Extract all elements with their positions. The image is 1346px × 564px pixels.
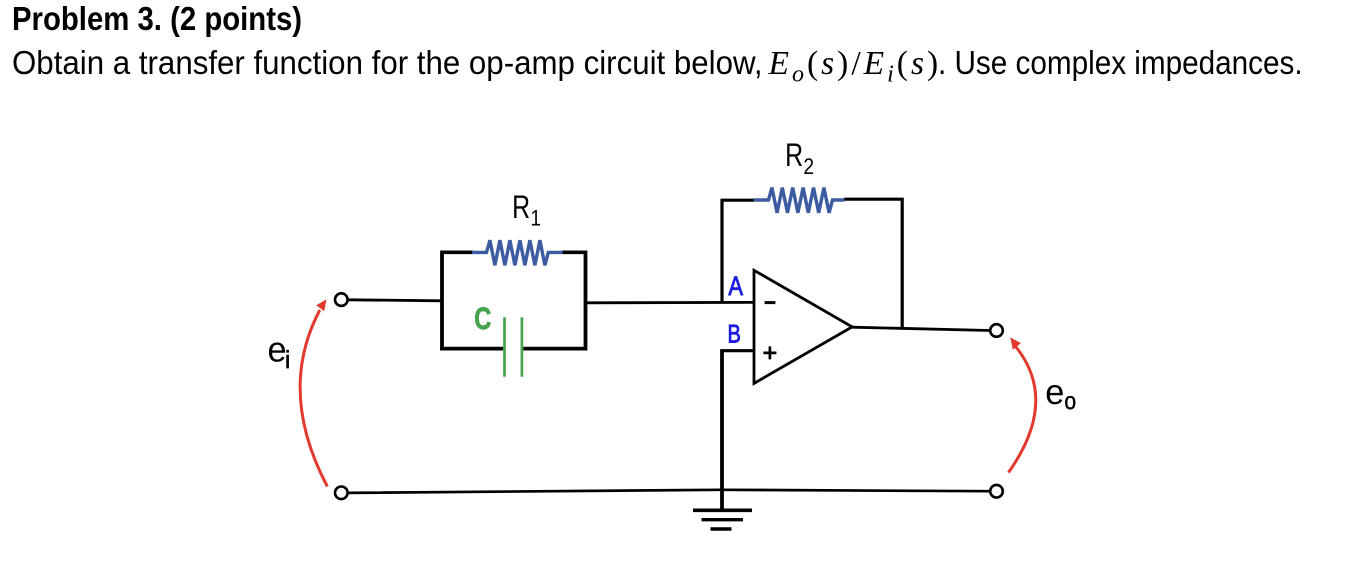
ground <box>693 510 752 529</box>
node A label <box>728 271 743 301</box>
wire: top-left terminal to R1C box <box>348 300 442 301</box>
label C <box>474 301 491 336</box>
node B label <box>728 320 741 348</box>
svg-text:R: R <box>785 136 803 173</box>
svg-text:C: C <box>474 301 491 336</box>
output arrow e_o arc <box>1009 337 1036 472</box>
terminal bottom-left <box>335 487 348 500</box>
svg-text:i: i <box>285 347 290 374</box>
svg-text:e: e <box>1045 372 1064 412</box>
wire: node B horizontal into op-amp + input <box>722 349 754 352</box>
op-amp U1 triangle <box>754 270 852 383</box>
problem statement math E_o(s)/E_i(s) <box>769 47 942 87</box>
R1C box top edge black segments <box>441 251 587 255</box>
svg-text:A: A <box>728 271 743 301</box>
label R2 <box>785 136 814 179</box>
problem statement trailing text <box>938 47 1303 81</box>
wire: R2 right lead horizontal and down to output <box>844 199 902 329</box>
problem title <box>12 3 302 37</box>
terminal bottom-right <box>990 485 1003 498</box>
svg-text:B: B <box>728 320 741 348</box>
label e_o <box>1045 372 1076 415</box>
terminal output top-right <box>990 324 1003 337</box>
label R1 <box>512 188 541 231</box>
R1C parallel box right side <box>584 251 588 351</box>
svg-text:o: o <box>1064 388 1076 415</box>
svg-text:R: R <box>512 188 530 225</box>
svg-text:1: 1 <box>530 206 541 231</box>
svg-text:e: e <box>268 330 287 370</box>
resistor R2 <box>754 188 845 213</box>
terminal top-left <box>335 293 348 306</box>
op-amp minus sign <box>765 301 776 304</box>
R1C parallel box left side <box>440 251 444 351</box>
wire: node B vertical down to ground <box>720 349 724 509</box>
R1C box bottom edge black segments <box>440 347 587 351</box>
wire: feedback vertical from node A up to R2 <box>720 200 723 303</box>
label e_i <box>268 330 291 375</box>
wire: bottom return wire <box>348 490 991 493</box>
op-amp plus sign <box>763 346 776 359</box>
wire: op-amp output to right terminal <box>852 327 990 330</box>
resistor R1 <box>472 240 563 265</box>
svg-text:2: 2 <box>803 154 814 179</box>
problem statement leading text <box>12 47 763 81</box>
input arrow e_i arc <box>300 299 327 486</box>
wire: R2 left lead horizontal <box>721 199 755 202</box>
capacitor C plates <box>505 317 522 377</box>
wire: R1C box to op-amp inverting input <box>586 301 755 304</box>
